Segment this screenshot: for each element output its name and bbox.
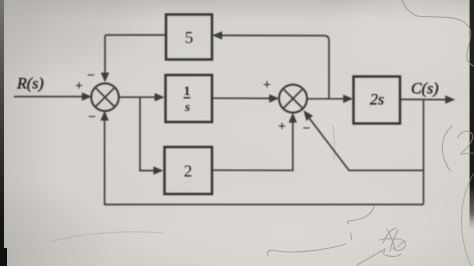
- svg-text:C(s): C(s): [411, 81, 439, 98]
- pencil faint stroke near centre: [333, 126, 335, 161]
- arrowhead output C(s): [445, 95, 455, 103]
- photo black edge left: [0, 0, 4, 266]
- wire: 1/s to J2: [212, 97, 271, 99]
- pencil comma hook under diagram: [347, 206, 374, 223]
- svg-text:5: 5: [185, 28, 194, 47]
- svg-text:+: +: [75, 79, 83, 94]
- arrowhead into block5: [212, 31, 222, 39]
- svg-text:2s: 2s: [370, 92, 384, 109]
- wire: block5 output to J1 top: [105, 35, 166, 74]
- pencil long curve bottom-right edge: [462, 174, 474, 266]
- svg-text:−: −: [303, 122, 311, 137]
- pencil paren right edge: [442, 126, 452, 171]
- arrowhead into 1/s block: [155, 93, 165, 101]
- wire: J1 to 1/s block: [118, 96, 157, 98]
- pencil swoosh: [267, 244, 346, 256]
- arrowhead into J2 left: [269, 94, 279, 102]
- summing junction J2: [279, 85, 307, 113]
- wire: top feedback tap up from main line: [222, 35, 329, 98]
- wire: inner feedback branch to diagonal: [309, 118, 424, 171]
- svg-text:2: 2: [184, 162, 193, 181]
- wire: J2 to 2s block: [307, 98, 345, 100]
- block 5: [166, 15, 212, 60]
- arrowhead into 2s block: [343, 95, 353, 103]
- arrowhead into J1 left: [82, 92, 92, 100]
- block diagram: [14, 15, 455, 205]
- arrowhead into J2 bottom: [289, 113, 297, 123]
- pencil tick: [350, 233, 353, 240]
- summing junction J1: [91, 83, 119, 111]
- arrowhead into J1 bottom: [100, 111, 108, 121]
- photo black edge right: [470, 0, 474, 230]
- pencil curve top-right: [402, 0, 474, 67]
- svg-text:−: −: [87, 69, 95, 84]
- wire: block2 output up to J2 bottom: [212, 122, 293, 170]
- arrowhead diagonal into J2: [304, 110, 313, 121]
- block 2: [165, 147, 213, 194]
- arrowhead into J1 top: [101, 73, 109, 83]
- arrowhead into block2: [153, 166, 163, 174]
- svg-text:1: 1: [184, 83, 191, 98]
- wire: R(s) input: [14, 96, 83, 98]
- svg-text:R(s): R(s): [16, 76, 44, 93]
- svg-text:s: s: [184, 99, 190, 114]
- pencil digit 2 right edge: [458, 131, 473, 154]
- wire: 2s to C(s) output: [400, 98, 446, 100]
- block 2s: [354, 77, 401, 124]
- svg-text:+: +: [263, 78, 271, 93]
- pencil faint wide arc bottom-left: [52, 232, 163, 241]
- svg-text:−: −: [88, 110, 96, 125]
- pencil scribble doodle: [357, 249, 385, 265]
- wire: output tap down right side: [423, 100, 425, 205]
- wire: tap down to block 2: [140, 97, 155, 170]
- svg-text:+: +: [278, 120, 286, 135]
- block 1/s: [166, 75, 213, 122]
- wire: outer feedback bottom line: [105, 120, 424, 205]
